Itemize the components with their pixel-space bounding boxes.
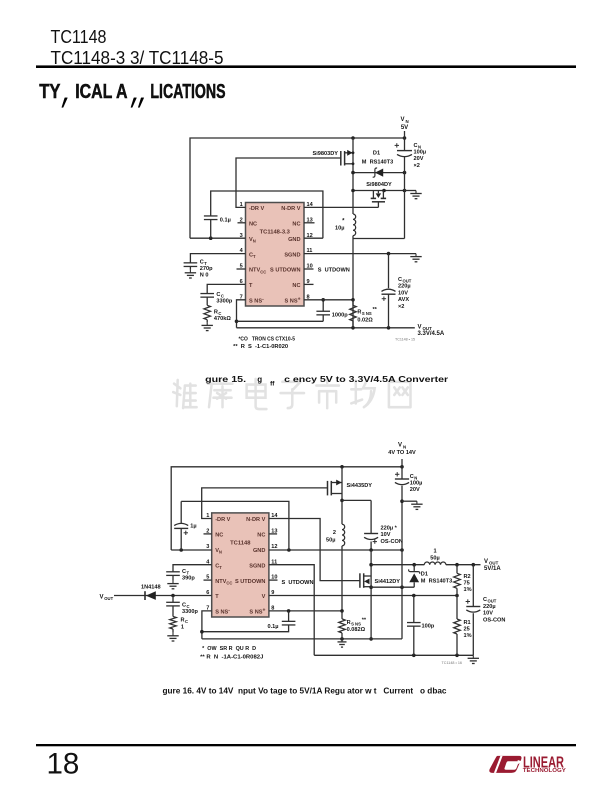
node CC junction fig16	[171, 594, 175, 598]
wire CT to ground	[189, 267, 191, 270]
node sense- junction	[235, 320, 239, 324]
U1 pin 9 stub	[304, 283, 314, 285]
wire pin6 comp	[207, 284, 245, 293]
wire RC to ground	[206, 320, 208, 323]
node D1 anode	[351, 171, 355, 175]
node 220u gnd	[369, 548, 373, 552]
wire VIN vertical upper	[404, 138, 406, 150]
svg-text:TC1148 • 16: TC1148 • 16	[442, 661, 463, 665]
svg-text:R: R	[347, 620, 351, 626]
wire drain to 220u	[342, 499, 371, 501]
wire sense- to 1000p	[237, 320, 324, 322]
svg-text:1%: 1%	[464, 633, 472, 639]
svg-text:Si4412DY: Si4412DY	[375, 579, 401, 585]
caption figure 16	[163, 686, 448, 695]
wire COUT lower	[388, 294, 390, 328]
svg-text:gure 15.: gure 15.	[205, 375, 246, 384]
svg-text:TC1148-3.3: TC1148-3.3	[260, 230, 291, 236]
diode D2 MBRS140T3	[409, 569, 420, 582]
ground COUT fig16	[468, 655, 479, 663]
svg-text:S UTDOWN: S UTDOWN	[270, 268, 300, 274]
wire R1 stem	[456, 596, 458, 620]
svg-text:100µ: 100µ	[410, 480, 423, 486]
CC labels fig15	[216, 292, 232, 305]
node CIN gnd tap	[400, 499, 404, 503]
svg-text:220µ: 220µ	[398, 284, 411, 290]
U1 pin 2 stub	[238, 222, 246, 224]
svg-text:50µ: 50µ	[430, 556, 439, 562]
watermark	[173, 379, 410, 409]
svg-text:20V: 20V	[414, 156, 424, 162]
wire L2 bottom	[341, 546, 343, 611]
wire pin6 left	[114, 595, 212, 597]
wire pin12 GND	[304, 237, 323, 239]
capacitor 0.1uF fig16	[282, 621, 296, 625]
node PMOS rail top	[340, 465, 344, 469]
wire RC gnd stem fig16	[172, 629, 174, 633]
svg-text:1: 1	[181, 624, 184, 630]
svg-text:g: g	[257, 375, 262, 384]
resistor RC 470k fig15	[204, 305, 211, 319]
node Rs bottom	[351, 326, 355, 330]
Linear Technology logo	[489, 754, 566, 774]
op-amp U2 TC1148 IC body	[212, 513, 269, 617]
U2 pin 13 stub	[269, 533, 277, 535]
inductor L3 50uH horizontal	[424, 562, 446, 565]
svg-text:25: 25	[464, 627, 470, 633]
node D1 return	[369, 585, 373, 589]
svg-text:C: C	[216, 292, 220, 298]
wire pin7 sense-	[237, 300, 246, 328]
svg-text:R1: R1	[464, 620, 471, 626]
wire bypass top	[211, 191, 323, 238]
VIN label fig16	[388, 443, 416, 457]
svg-text:C: C	[414, 143, 418, 149]
U2 pin 2 stub	[204, 533, 212, 535]
wire CC stem fig16	[172, 596, 174, 603]
VOUT feedback label	[100, 594, 114, 601]
node COUT bottom	[387, 326, 391, 330]
wire 0.1u bottom	[202, 625, 289, 632]
resistor RS 0.02ohm	[350, 305, 357, 321]
svg-text:TC1148: TC1148	[51, 26, 107, 47]
svg-text:390p: 390p	[182, 576, 195, 582]
VIN stub fig15	[404, 131, 406, 138]
capacitor COUT fig15	[382, 289, 396, 301]
heading TYPICAL APPLICATIONS	[39, 81, 225, 108]
diode D3 1N4148	[145, 591, 156, 600]
0.1uF label fig16	[268, 624, 279, 630]
CC labels fig16	[182, 603, 198, 616]
svg-text:4V TO 14V: 4V TO 14V	[388, 450, 416, 456]
100p label	[422, 624, 435, 630]
svg-text:V: V	[418, 324, 422, 330]
CT labels fig16	[182, 569, 195, 582]
ground RC fig15	[202, 322, 213, 330]
svg-text:10V: 10V	[483, 611, 493, 617]
capacitor 1uF fig16	[174, 523, 188, 535]
node sense- junction fig16	[200, 630, 204, 634]
svg-text:×2: ×2	[414, 163, 420, 169]
svg-text:C: C	[182, 603, 186, 609]
wire to ground G1	[405, 190, 417, 192]
wire inductor return	[353, 238, 405, 240]
wire NMOS drain row	[353, 190, 405, 192]
svg-text:OS-CON: OS-CON	[381, 539, 403, 545]
ground RC fig16	[167, 633, 178, 641]
RC labels fig15	[214, 310, 231, 323]
svg-text:** R N -1A-C1-0R082J: ** R N -1A-C1-0R082J	[200, 655, 263, 661]
svg-text:C: C	[483, 597, 487, 603]
svg-text:S NS-: S NS-	[215, 608, 230, 616]
SHUTDOWN label fig16	[282, 580, 314, 586]
wire CC to RC fig16	[172, 606, 174, 617]
node NMOS left	[351, 189, 355, 193]
svg-text:D1: D1	[421, 571, 428, 577]
svg-text:S UTDOWN: S UTDOWN	[318, 268, 350, 274]
svg-text:NC: NC	[215, 533, 223, 539]
node D1 cathode rail	[403, 171, 407, 175]
transistor Q4 Si4412DY	[360, 573, 371, 588]
node Q3 drain	[340, 499, 344, 503]
ground CIN fig16	[411, 501, 422, 509]
capacitor CC 3300p fig15	[200, 294, 214, 298]
wire pin11 SGND fig16	[269, 565, 314, 656]
svg-text:10V: 10V	[381, 532, 391, 538]
U2 pin number labels	[206, 513, 278, 611]
svg-text:C: C	[200, 260, 204, 266]
wire pin8 sense+ fig16	[269, 610, 342, 612]
wire top rail fig16	[171, 467, 402, 550]
U1 pin name labels	[249, 206, 301, 304]
node D2 return gnd	[400, 585, 404, 589]
svg-text:OUT: OUT	[489, 561, 499, 566]
svg-text:M RS140T3: M RS140T3	[421, 578, 452, 584]
wire CT gnd stem	[172, 576, 174, 581]
wire D2 return	[371, 586, 414, 588]
wire Q3 drain to L2	[341, 500, 343, 524]
svg-text:SGND: SGND	[249, 563, 265, 569]
svg-text:OS-CON: OS-CON	[483, 617, 505, 623]
svg-text:* OW SR R QU R D: * OW SR R QU R D	[202, 646, 256, 652]
svg-text:220µ *: 220µ *	[381, 526, 398, 532]
svg-text:D1: D1	[373, 151, 380, 157]
220u labels fig16	[381, 526, 403, 545]
node COUT top	[387, 252, 391, 256]
node W riser gnd	[287, 548, 291, 552]
svg-text:R2: R2	[464, 574, 471, 580]
VIN stub fig16	[401, 459, 403, 467]
transistor Q3 Si4435DY	[328, 480, 343, 496]
wire Rs top stem	[352, 300, 354, 306]
wire VOUT left	[371, 564, 424, 566]
D1 label	[362, 151, 393, 166]
Q2 label Si9804DY	[366, 182, 392, 188]
wire pin8 sense+	[304, 299, 353, 301]
svg-text:VN: VN	[249, 237, 256, 244]
1uF label	[190, 524, 196, 530]
wire CC to RC	[206, 297, 208, 305]
svg-text:220µ: 220µ	[483, 604, 496, 610]
wire VIN vertical lower	[404, 157, 406, 239]
svg-text:NC: NC	[257, 533, 265, 539]
svg-text:1000p: 1000p	[332, 312, 348, 318]
wire top rail fig15	[190, 138, 405, 238]
wire 0.1u stem	[288, 611, 290, 621]
svg-text:** R S -1-C1-0R020: ** R S -1-C1-0R020	[233, 344, 288, 350]
inductor L1 10uH	[353, 214, 356, 236]
svg-text:T: T	[249, 283, 253, 289]
svg-text:N: N	[406, 119, 409, 124]
node switch rail top	[351, 136, 355, 140]
VOUT label fig16	[484, 559, 501, 572]
RC labels fig16	[181, 617, 189, 630]
node NMOS right	[382, 189, 386, 193]
D2 labels	[421, 571, 452, 584]
svg-text:75: 75	[464, 581, 470, 587]
svg-text:3: 3	[206, 544, 209, 550]
wire R2 bottom	[456, 588, 458, 595]
wire 1u top	[181, 501, 289, 550]
diode D1 MBRS140T3	[373, 168, 384, 177]
resistor R2 75	[454, 573, 461, 588]
node Q1 source	[352, 151, 355, 154]
svg-text:Si9803DY: Si9803DY	[313, 151, 339, 157]
svg-text:VN: VN	[215, 548, 222, 555]
wire pin4 CT fig16	[173, 565, 212, 572]
svg-text:×2: ×2	[398, 304, 404, 310]
U1 pin number labels	[240, 202, 314, 300]
node VIN top fig16	[400, 465, 404, 469]
op-amp U1 TC1148-3.3 IC body	[246, 203, 305, 307]
inductor L2 50uH	[342, 524, 345, 546]
svg-text:5V/1A: 5V/1A	[484, 566, 501, 572]
svg-text:5V: 5V	[401, 125, 408, 131]
svg-text:100µ: 100µ	[414, 150, 427, 156]
svg-text:3.3V/4.5A: 3.3V/4.5A	[418, 331, 445, 337]
R2 labels	[464, 574, 472, 593]
0.1uF label fig15	[220, 218, 231, 224]
svg-text:N 0: N 0	[200, 273, 209, 279]
svg-text:TC1148: TC1148	[230, 541, 251, 547]
svg-text:N-DR V: N-DR V	[246, 517, 266, 523]
svg-text:3300p: 3300p	[182, 609, 198, 615]
wire Rs bottom fig16	[341, 633, 343, 639]
svg-text:TY: TY	[39, 81, 61, 103]
header part number line 1	[51, 26, 107, 47]
svg-text:LICATIONS: LICATIONS	[150, 81, 225, 103]
svg-text:AVX: AVX	[398, 297, 409, 303]
node CIN gnd rail	[400, 548, 404, 552]
wire 1u stem	[180, 501, 182, 523]
svg-text:GND: GND	[288, 237, 300, 243]
svg-text:SGND: SGND	[284, 252, 300, 258]
wire NDRV pin14 fig16	[269, 519, 360, 581]
svg-text:0.082Ω: 0.082Ω	[347, 627, 366, 633]
wire Q4 rail	[370, 550, 372, 639]
svg-text:-DR V: -DR V	[215, 517, 230, 523]
svg-text:1N4148: 1N4148	[141, 584, 161, 590]
svg-text:Si4435DY: Si4435DY	[347, 483, 373, 489]
svg-text:C: C	[410, 474, 414, 480]
L3 labels	[430, 549, 439, 562]
R1 labels	[464, 620, 472, 639]
wire D2 stem bottom	[413, 582, 415, 587]
node 100p bottom	[412, 654, 416, 658]
svg-text:2: 2	[333, 530, 336, 536]
node R2 top	[455, 563, 459, 567]
wire VOUT right	[446, 564, 481, 566]
svg-text:0.1µ: 0.1µ	[220, 218, 231, 224]
svg-text:C: C	[185, 619, 188, 624]
1000p label	[332, 312, 348, 318]
svg-text:10V: 10V	[398, 290, 408, 296]
svg-text:N-DR V: N-DR V	[281, 206, 301, 212]
COUT labels fig16	[483, 597, 505, 623]
svg-text:CT: CT	[249, 252, 256, 259]
svg-text:Si9804DY: Si9804DY	[366, 182, 392, 188]
svg-text:*CO TRON CS CTX10-5: *CO TRON CS CTX10-5	[239, 337, 296, 343]
CT labels fig15	[200, 260, 213, 279]
wire R1 bottom	[456, 634, 458, 655]
node 0.1u top	[287, 609, 291, 613]
svg-text:TECHNOLOGY: TECHNOLOGY	[523, 768, 566, 774]
node 1000p top junction	[321, 298, 325, 302]
wire PDRV pin1	[236, 158, 341, 207]
ground CT fig15	[185, 270, 196, 278]
svg-text:1%: 1%	[464, 587, 472, 593]
node Rs top	[351, 298, 355, 302]
capacitor 1000p	[316, 311, 330, 315]
Q1 label Si9803DY	[313, 151, 339, 157]
node FB divider	[455, 594, 459, 598]
node NMOS rail right	[403, 189, 407, 193]
wire pin9 FB	[269, 595, 457, 597]
wire VOUT rail fig15	[237, 327, 415, 329]
wire CIN stem fig16	[401, 467, 403, 479]
Q4 label Si4412DY	[375, 579, 401, 585]
svg-text:3300p: 3300p	[216, 299, 232, 305]
svg-text:270p: 270p	[200, 266, 213, 272]
svg-text:ICAL A: ICAL A	[75, 81, 127, 103]
capacitor 220u fig16	[364, 534, 378, 544]
wire pin3 VIN	[190, 237, 246, 239]
svg-text:12: 12	[271, 544, 277, 550]
svg-text:NC: NC	[292, 222, 300, 228]
svg-text:NTVCC: NTVCC	[215, 579, 232, 586]
wire below inductor	[352, 236, 354, 328]
svg-text:S NS: S NS	[351, 622, 361, 627]
resistor RS 0.082ohm	[339, 619, 346, 633]
ground G1	[410, 191, 421, 199]
U2 pin10 stub	[269, 579, 278, 581]
wire Rs stem fig16	[341, 611, 343, 619]
node D2 top	[412, 563, 416, 567]
transistor Q2 Si9804DY	[371, 191, 386, 208]
wire pin12 GND fig16	[269, 549, 402, 551]
svg-text:-DR V: -DR V	[249, 206, 264, 212]
svg-text:GND: GND	[253, 548, 265, 554]
wire CIN lower fig16	[401, 486, 403, 639]
wire 100p stem	[413, 596, 415, 623]
svg-text:50µ: 50µ	[326, 538, 335, 544]
wire gnd tap fig16	[402, 500, 417, 502]
node R1 bottom	[455, 654, 459, 658]
U1 pin 13 stub	[304, 222, 315, 224]
wire NDRV pin14	[304, 206, 378, 208]
svg-text:0.1µ: 0.1µ	[268, 624, 279, 630]
svg-text:OUT: OUT	[104, 596, 113, 601]
svg-text:c ency 5V to 3.3V/4.5A Convert: c ency 5V to 3.3V/4.5A Converter	[284, 375, 448, 384]
D3 label 1N4148	[141, 584, 161, 590]
svg-text:S NS-: S NS-	[249, 297, 264, 305]
wire R2 stem	[456, 565, 458, 574]
node VIN rail top	[403, 136, 407, 140]
svg-text:S UTDOWN: S UTDOWN	[282, 580, 314, 586]
node Q1 drain	[352, 162, 355, 165]
svg-text:C: C	[182, 569, 186, 575]
CIN labels fig15	[414, 143, 427, 169]
svg-text:470kΩ: 470kΩ	[214, 316, 231, 322]
capacitor COUT fig16	[466, 599, 481, 612]
wire COUT stem fig16	[472, 565, 474, 607]
CIN labels fig16	[410, 474, 423, 493]
capacitor 0.1uF fig15	[204, 216, 218, 220]
U1 pin10 stub	[304, 268, 314, 270]
wire PDRV pin1 fig16	[202, 488, 328, 519]
header part number line 2	[51, 47, 224, 68]
svg-text:V: V	[100, 594, 104, 600]
svg-text:V: V	[398, 443, 402, 449]
wire COUT lower fig16	[472, 613, 474, 655]
node Rs top fig16	[340, 609, 344, 613]
capacitor CIN fig16	[395, 472, 409, 484]
U1 pin 5 stub	[237, 268, 246, 270]
capacitor CT 390p	[166, 572, 180, 576]
ground SGND fig15	[410, 254, 421, 262]
wire pin7 sense- fig16	[202, 611, 212, 639]
VIN label fig15	[401, 117, 409, 131]
svg-text:18: 18	[47, 748, 80, 781]
svg-text:20V: 20V	[410, 487, 420, 493]
SHUTDOWN label fig15	[318, 268, 350, 274]
svg-text:NTVCC: NTVCC	[249, 268, 266, 275]
svg-text:CT: CT	[215, 563, 222, 570]
svg-text:NC: NC	[249, 222, 257, 228]
wire 220u bottom	[370, 542, 372, 551]
fig15 part tiny id	[395, 338, 415, 342]
RS labels fig15	[357, 307, 377, 324]
capacitor CIN fig15	[395, 143, 412, 156]
footer page number	[47, 748, 80, 781]
svg-text:gure 16. 4V to 14V nput Vo ta: gure 16. 4V to 14V nput Vo tage to 5V/1A…	[163, 686, 448, 695]
wire 220u stem	[370, 500, 372, 533]
svg-text:V: V	[484, 559, 488, 565]
caption figure 15	[205, 375, 448, 388]
wire D2 stem top	[413, 565, 415, 571]
L2 labels	[326, 530, 336, 544]
svg-text:R: R	[357, 310, 361, 316]
wire bypass bottom	[210, 220, 212, 239]
transistor Q1 Si9803DY	[341, 150, 353, 166]
footer rule	[36, 744, 576, 746]
node 1u bottom	[179, 548, 183, 552]
capacitor 100p	[407, 623, 421, 627]
svg-text:TC1148 • 15: TC1148 • 15	[395, 338, 415, 342]
ground RS fig16	[338, 639, 347, 647]
resistor RC fig16	[170, 617, 177, 630]
fig16 note 1	[202, 646, 256, 652]
